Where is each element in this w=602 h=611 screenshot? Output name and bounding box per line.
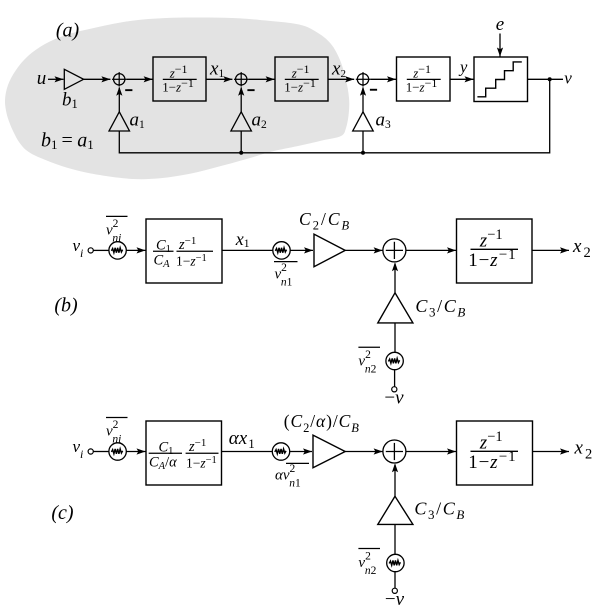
svg-text:b1=a1: b1=a1 [41,130,94,153]
noise source vn22 (b) [386,352,403,369]
wire amp to summer (b) [345,249,382,251]
svg-text:u: u [37,68,47,89]
wire C3 amp to summer (b) [394,264,396,293]
wire vi to noise source (b) [93,249,109,251]
feedback amplifier a3 [353,112,374,131]
wire quantizer to output v [528,78,564,80]
minus sign at S2 [247,89,254,91]
block C1/CA z-1/(1-z-1) (b) [146,219,222,283]
input terminal (c) [88,449,93,454]
integrator block H3 z-1/(1-z-1) [397,57,451,101]
summer (b) [383,239,406,262]
noise source alpha-vn12 (c) [272,443,289,460]
wire noise to block C1 (c) [126,451,145,453]
label vn12 (b) [274,261,298,263]
wire C3 amp to noise n2 (b) [394,323,396,353]
svg-text:v: v [564,69,572,88]
wire e into quantizer [499,34,501,57]
quantizer staircase symbol [477,62,521,97]
terminal -v (c) [392,588,397,593]
integrator block H2 z-1/(1-z-1) [275,57,328,101]
wire C3 amp to noise n2 (c) [394,524,396,554]
label vn22 (b) [358,346,380,348]
label vn22 (c) [358,548,380,550]
wire block to x2 (c) [533,451,570,453]
svg-text:−v: −v [384,388,404,409]
minus sign at S1 [125,89,132,91]
svg-text:(a): (a) [56,20,80,42]
wire C1 to noise n1 (c) [222,451,273,453]
summer S2 [236,74,247,85]
wire a1 to S1 [118,88,120,112]
junction dot on v wire [548,77,552,81]
feedback wire a2 branch [240,131,242,153]
wire C3 amp to summer (c) [394,465,396,497]
svg-text:y: y [458,57,468,76]
shaded analog region (gray blob) [5,17,349,179]
wire H1 to summer S2 [206,78,232,80]
svg-text:−v: −v [385,589,405,610]
wire S2 to block H2 [248,78,274,80]
summer S3 [357,74,368,85]
integrator block H1 z-1/(1-z-1) [153,57,206,101]
block C1/(CA/alpha) z-1/(1-z-1) (c) [146,421,222,485]
amplifier C2/CB (b) [314,234,345,267]
label vni2 (c) [106,417,128,419]
label vni2 (b) [106,215,128,217]
minus sign at S3 [370,89,377,91]
label alpha-vn12 (c) [286,462,309,464]
wire u to b1 [48,78,64,80]
summer S1 [114,74,125,85]
input terminal (b) [88,248,93,253]
junction dot feedback at a3 [361,151,365,155]
noise source vni2 (b) [109,242,126,259]
amplifier b1 [64,69,83,89]
wire noise n1 to amp (C2/alpha)/CB (c) [290,451,312,453]
summer (c) [383,440,406,463]
svg-text:(c): (c) [51,502,74,524]
feedback wire a3 branch [362,131,364,153]
junction dot feedback at a2 [239,151,243,155]
noise source vni2 (c) [109,443,126,460]
wire noise n1 to amp C2/CB (b) [290,249,313,251]
amplifier C3/CB (c) [378,496,413,524]
wire noise to block B1 (b) [126,249,145,251]
wire B1 to noise n1 (b) [222,249,273,251]
wire S1 to block H1 [126,78,152,80]
amplifier (C2/alpha)/CB (c) [313,435,345,468]
noise source vn12 (b) [273,242,290,259]
feedback amplifier a2 [231,112,252,131]
svg-text:(b): (b) [54,295,78,317]
terminal -v (b) [392,387,397,392]
feedback wire from v [119,79,549,153]
wire a2 to S2 [240,88,242,112]
amplifier C3/CB (b) [378,293,413,323]
wire noise n2 to -v terminal (b) [394,370,396,387]
block z-1/(1-z-1) (c) [457,421,533,485]
wire H2 to summer S3 [328,78,354,80]
wire b1 to summer S1 [84,78,111,80]
wire H3 to quantizer [450,78,474,80]
wire amp to summer (c) [345,451,382,453]
wire B2 to x2 (b) [532,249,569,251]
wire a3 to S3 [362,88,364,112]
quantizer block [474,57,528,102]
wire S3 to block H3 [370,78,396,80]
wire vi to noise source (c) [93,451,109,453]
wire summer to block B2 (b) [406,249,456,251]
wire noise n2 to -v terminal (c) [394,572,396,589]
block z-1/(1-z-1) (b) [457,219,533,283]
noise source vn22 (c) [387,554,404,571]
svg-text:e: e [496,14,504,35]
wire summer to block (c) [406,451,456,453]
feedback amplifier a1 [109,112,130,131]
